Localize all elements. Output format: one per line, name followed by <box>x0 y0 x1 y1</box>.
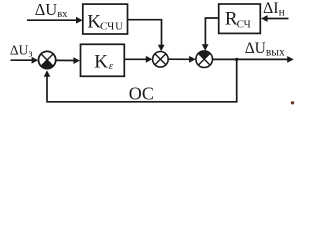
svg-text:ОС: ОС <box>129 83 154 103</box>
